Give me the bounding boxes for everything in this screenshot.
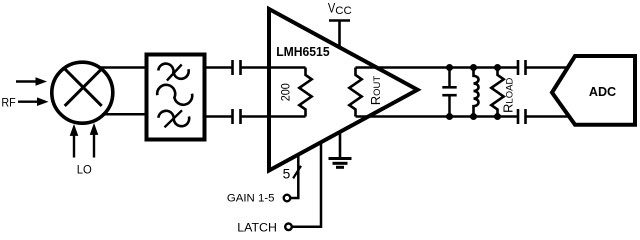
svg-text:200: 200 xyxy=(278,83,292,101)
VCC supply bar xyxy=(329,19,350,22)
wire cap to ADC top xyxy=(526,66,569,69)
ADC block xyxy=(552,56,635,125)
svg-text:5: 5 xyxy=(283,166,291,181)
wire ROUT to output caps bottom rail xyxy=(356,115,519,118)
ground xyxy=(329,132,352,167)
svg-text:LATCH: LATCH xyxy=(237,221,277,234)
svg-text:LO: LO xyxy=(77,164,92,177)
inductor shunt xyxy=(474,68,479,117)
svg-text:ADC: ADC xyxy=(589,85,616,99)
RF input arrow top xyxy=(16,77,47,86)
filter wave symbol bottom (with slash) xyxy=(158,110,189,127)
wire LATCH to amp xyxy=(292,143,321,227)
svg-text:VCC: VCC xyxy=(328,1,352,17)
resistor RLOAD xyxy=(491,68,503,117)
capacitor input bottom xyxy=(233,109,241,124)
capacitor output bottom xyxy=(518,109,526,124)
mixer circle xyxy=(52,62,113,123)
wire mixer to filter bottom xyxy=(102,113,146,116)
LO arrow right xyxy=(90,123,99,158)
node dot cap top xyxy=(446,64,453,71)
capacitor input top xyxy=(233,60,241,75)
node dot inductor bottom xyxy=(470,113,477,120)
LATCH terminal circle xyxy=(285,224,292,231)
svg-text:GAIN 1-5: GAIN 1-5 xyxy=(227,193,275,205)
capacitor output top xyxy=(518,60,526,75)
filter FL1 box xyxy=(147,55,205,140)
wire mixer to filter top xyxy=(99,66,146,69)
bus slash xyxy=(293,166,301,179)
wire filter to cap top xyxy=(205,66,233,69)
node dot inductor top xyxy=(470,64,477,71)
op-amp U1 LMH6515 body xyxy=(269,9,418,171)
node dot RLOAD bottom xyxy=(494,113,501,120)
svg-text:RF: RF xyxy=(1,96,15,109)
wire VCC to amp xyxy=(338,21,341,48)
LO arrow left xyxy=(70,124,79,158)
node dot cap bottom xyxy=(446,113,453,120)
wire cap to ADC bottom xyxy=(526,115,570,118)
svg-text:LMH6515: LMH6515 xyxy=(276,45,329,59)
wire ROUT to output caps top rail xyxy=(356,66,519,69)
capacitor shunt xyxy=(442,68,456,117)
filter wave symbol middle xyxy=(157,85,192,105)
wire GAIN to amp xyxy=(291,155,299,198)
GAIN terminal circle xyxy=(284,195,291,202)
wire cap to 200 resistor top rail xyxy=(241,66,306,69)
resistor ROUT xyxy=(349,68,361,117)
node dot RLOAD top xyxy=(494,64,501,71)
wire filter to cap bottom xyxy=(205,115,233,118)
filter wave symbol top (with slash) xyxy=(158,64,188,81)
RF input arrow bottom xyxy=(18,97,49,106)
resistor 200 xyxy=(299,68,311,117)
wire cap to 200 resistor bottom rail xyxy=(241,115,306,118)
